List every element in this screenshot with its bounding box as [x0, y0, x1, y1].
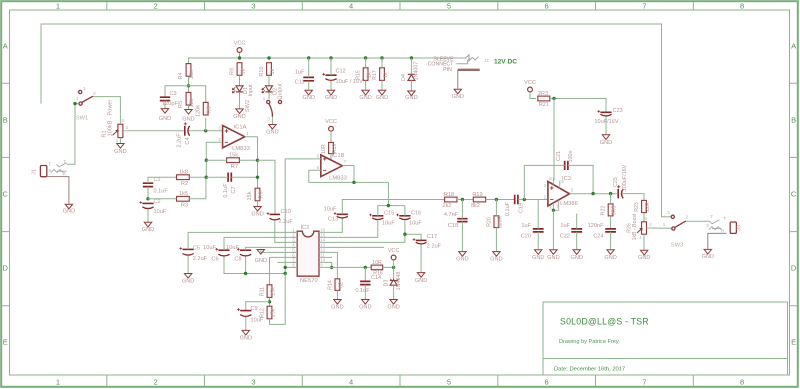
- wire C5 to pin1 rail: [188, 232, 297, 249]
- svg-text:1N4007: 1N4007: [414, 62, 420, 81]
- ground GND below C5: [184, 274, 191, 279]
- ground GND below R9: [254, 207, 261, 212]
- svg-text:Date: December 16th, 2017: Date: December 16th, 2017: [554, 367, 625, 373]
- svg-text:0.1uF: 0.1uF: [154, 189, 169, 195]
- svg-text:Drawing by Patrice Frey: Drawing by Patrice Frey: [559, 339, 619, 345]
- wire IC1B output: [342, 166, 354, 183]
- svg-text:SW2: SW2: [245, 100, 251, 112]
- wire SW1 lever to pot R1: [93, 97, 120, 124]
- svg-text:100n: 100n: [568, 151, 574, 163]
- svg-text:GND: GND: [547, 255, 559, 261]
- svg-text:GND: GND: [405, 95, 417, 101]
- capacitor C17 2.2uF: [416, 239, 427, 241]
- wire IC3 output: [570, 193, 618, 195]
- svg-text:GND: GND: [702, 254, 714, 260]
- frame row ticks left and right: [2, 83, 798, 306]
- svg-text:GND: GND: [325, 95, 337, 101]
- svg-text:T: T: [710, 215, 713, 220]
- wire C19 to IC3 input: [518, 199, 548, 201]
- svg-text:C6: C6: [211, 256, 218, 262]
- resistor R17 10k: [380, 68, 385, 81]
- junction VCC rail R17: [380, 56, 383, 59]
- svg-text:C20: C20: [521, 233, 531, 239]
- svg-text:2k2: 2k2: [442, 203, 451, 209]
- resistor R18 2k2: [445, 197, 457, 202]
- wire C21 feedback loop: [524, 165, 564, 199]
- wire pin6 to R11: [270, 256, 298, 258]
- svg-text:7: 7: [642, 2, 646, 11]
- IC2 NE570 compander: [297, 231, 319, 276]
- wire pin14 to C16: [324, 221, 405, 243]
- svg-text:1uF: 1uF: [295, 70, 305, 76]
- svg-text:D4: D4: [401, 74, 407, 81]
- svg-text:1uF: 1uF: [521, 223, 531, 229]
- svg-text:1k: 1k: [270, 68, 276, 74]
- svg-text:8: 8: [740, 2, 744, 11]
- wire R6 bottom to input node: [205, 118, 207, 131]
- wire J1 tip to bypass node: [67, 104, 75, 165]
- svg-text:6: 6: [545, 378, 549, 387]
- svg-text:R8: R8: [229, 68, 235, 75]
- wire pin7 stub: [278, 261, 298, 263]
- svg-text:15k: 15k: [229, 153, 238, 159]
- svg-text:1k5: 1k5: [179, 191, 188, 197]
- svg-text:E: E: [3, 338, 8, 347]
- wire C11 stems: [308, 58, 310, 77]
- resistor R6 120k: [203, 102, 208, 115]
- svg-text:R21: R21: [539, 102, 549, 108]
- svg-text:4: 4: [349, 2, 353, 11]
- wire R4 to bias node: [188, 76, 190, 92]
- IC2 pin 3 stub: [292, 241, 297, 243]
- capacitor C1 0.1uF: [143, 183, 153, 186]
- svg-text:A: A: [791, 42, 796, 51]
- svg-text:2.2uF: 2.2uF: [427, 244, 442, 250]
- wire pin8 to bias rail: [285, 266, 297, 268]
- svg-text:0.1uF: 0.1uF: [505, 201, 511, 216]
- IC2 pin 1 stub: [292, 231, 297, 233]
- ground GND below C20: [535, 250, 542, 255]
- capacitor C16 10uF: [399, 215, 410, 217]
- ground GND below C23: [602, 135, 609, 140]
- svg-text:10uF: 10uF: [251, 317, 264, 323]
- svg-text:VCC: VCC: [325, 119, 337, 125]
- svg-text:100uF/16V: 100uF/16V: [622, 164, 628, 191]
- resistor R9 15k: [255, 188, 260, 201]
- IC2 pin 4 stub: [292, 246, 297, 248]
- junction C21 left node: [523, 198, 526, 201]
- svg-text:1k: 1k: [240, 68, 246, 74]
- wire VCC stem to node: [393, 260, 395, 268]
- svg-text:GND: GND: [359, 95, 371, 101]
- junction inverting node C7 left: [205, 176, 208, 179]
- svg-text:4.7nF: 4.7nF: [444, 212, 459, 218]
- junction output R22 tap: [609, 192, 612, 195]
- svg-text:C10: C10: [281, 209, 291, 215]
- svg-text:3R3: 3R3: [612, 206, 618, 216]
- svg-text:C4: C4: [185, 137, 191, 144]
- wire VCC drop to IC3: [553, 99, 555, 181]
- title block box: [543, 302, 788, 375]
- svg-text:62: 62: [338, 282, 344, 288]
- junction bias node: [187, 84, 190, 87]
- svg-text:10R: 10R: [372, 260, 382, 266]
- frame column ticks top and bottom: [107, 2, 694, 387]
- wire C23 to ground: [605, 117, 607, 135]
- wire R19 to IC1B: [330, 154, 332, 161]
- IC2 pin 9 stub: [319, 266, 324, 268]
- resistor R11 15k: [267, 285, 272, 298]
- wire IC1B noninverting input riser: [285, 159, 321, 274]
- junction output to R7: [256, 159, 259, 162]
- svg-text:A: A: [3, 42, 8, 51]
- resistor R16 10R: [371, 265, 383, 270]
- wire bias node to R6: [189, 86, 206, 102]
- wire D3 to ground: [393, 285, 395, 299]
- wire J3 sleeve to ground: [708, 233, 727, 249]
- wire C17 to ground: [420, 245, 422, 273]
- IC2 pin 7 stub: [292, 261, 297, 263]
- svg-text:C22: C22: [560, 233, 570, 239]
- resistor R2 1k8: [177, 175, 190, 180]
- capacitor C14 0.1uF: [360, 281, 370, 284]
- junction IC1B output feedback: [352, 181, 355, 184]
- capacitor C9 10uF: [240, 310, 251, 312]
- svg-text:B: B: [3, 116, 8, 125]
- ground GND below R14: [334, 300, 341, 305]
- capacitor C12 10uF/16V: [325, 74, 336, 76]
- capacitor C18 4.7nF: [457, 219, 467, 222]
- wire IC1A output down: [245, 137, 258, 188]
- svg-text:J1: J1: [32, 169, 38, 175]
- svg-text:C9: C9: [251, 306, 258, 312]
- ground GND below C17: [417, 273, 424, 278]
- svg-text:0.1uF: 0.1uF: [355, 288, 370, 294]
- ground GND below R5: [185, 110, 192, 115]
- svg-text:R4: R4: [178, 72, 184, 79]
- op-amp IC3 LM386: [548, 182, 570, 207]
- capacitor C21 100nF feedback: [565, 161, 568, 170]
- wire SW3 to jack J3: [686, 220, 710, 222]
- wire C25 to R23: [623, 194, 644, 201]
- junction IC3 ground node: [552, 209, 555, 212]
- svg-text:R15: R15: [356, 70, 362, 80]
- supply VCC above IC1B: [329, 126, 334, 131]
- LED D2 Output: [266, 86, 273, 92]
- svg-text:SW1: SW1: [76, 116, 89, 122]
- wire C7 wires: [206, 176, 228, 178]
- svg-text:IC1A: IC1A: [234, 125, 247, 131]
- IC2 pin 15 stub: [319, 236, 324, 238]
- junction C14 node: [364, 266, 367, 269]
- svg-text:R6: R6: [207, 106, 213, 113]
- svg-text:NE570: NE570: [300, 278, 318, 284]
- svg-text:GND: GND: [182, 117, 194, 123]
- ground GND below R15: [362, 90, 369, 95]
- svg-text:C25: C25: [613, 177, 619, 187]
- svg-text:LM833: LM833: [232, 146, 250, 152]
- svg-text:C24: C24: [593, 233, 603, 239]
- svg-text:15k: 15k: [270, 308, 276, 317]
- resistor R10 1k: [267, 63, 272, 76]
- svg-text:VCC: VCC: [234, 41, 246, 47]
- svg-text:10uF: 10uF: [324, 206, 337, 212]
- svg-text:120k: 120k: [196, 105, 202, 117]
- svg-text:C18: C18: [448, 223, 458, 229]
- svg-text:J3: J3: [737, 225, 743, 231]
- svg-text:10uF: 10uF: [203, 245, 216, 251]
- wire R26 wiper to SW3: [651, 227, 672, 229]
- svg-text:C2: C2: [154, 199, 161, 205]
- wire C10 bottom to pin3 line: [275, 220, 298, 242]
- svg-text:R23: R23: [634, 202, 640, 212]
- svg-text:1: 1: [56, 2, 60, 11]
- wire pin5 to ground: [261, 251, 297, 253]
- svg-text:S: S: [706, 223, 709, 228]
- junction R11 R12 C9: [268, 300, 271, 303]
- supply VCC main: [237, 48, 242, 53]
- svg-text:C7: C7: [231, 186, 237, 193]
- wire IC1B output to C15/C16 node: [387, 182, 389, 205]
- wire J1 sleeve to ground: [47, 177, 69, 204]
- svg-text:1k8: 1k8: [179, 170, 188, 176]
- switch SW1 bypass: [79, 102, 82, 105]
- svg-text:R2: R2: [181, 181, 188, 187]
- svg-text:GND: GND: [490, 257, 502, 263]
- wire IC1A output to C10: [258, 160, 276, 214]
- ground GND below C24: [607, 250, 614, 255]
- IC2 pin 16 stub: [319, 231, 324, 233]
- svg-text:LM386: LM386: [560, 201, 578, 207]
- svg-text:R11: R11: [259, 287, 265, 296]
- svg-text:10uF: 10uF: [226, 245, 239, 251]
- wire C14 to ground: [364, 285, 366, 300]
- svg-text:2.2uF: 2.2uF: [176, 133, 182, 148]
- capacitor C7 0.1uF feedback: [228, 173, 231, 182]
- svg-text:R3: R3: [181, 202, 188, 208]
- resistor R8 1k: [237, 63, 242, 76]
- resistor R4 10k: [186, 64, 191, 77]
- svg-text:GND: GND: [63, 208, 75, 214]
- capacitor C11 1uF: [303, 77, 314, 80]
- wire C16 top to coupling node: [404, 206, 406, 216]
- wire C4 to IC1A noninverting input: [189, 130, 222, 132]
- svg-text:R19: R19: [472, 192, 482, 198]
- junction VCC rail C11: [307, 56, 310, 59]
- resistor R23 22R: [642, 200, 647, 212]
- IC2 pin 14 stub: [319, 241, 324, 243]
- svg-text:10k: 10k: [189, 70, 195, 79]
- svg-text:E: E: [791, 338, 796, 347]
- svg-text:GND: GND: [376, 95, 388, 101]
- wire IC1B feedback loop: [309, 170, 389, 182]
- wire R9 to ground: [257, 201, 259, 206]
- junction R20 node: [495, 198, 498, 201]
- junction node C1/C2/R3: [146, 197, 149, 200]
- wire C8 bottom to bias rail: [245, 256, 247, 273]
- capacitor C24 120nF: [605, 229, 616, 232]
- svg-text:VCC: VCC: [388, 248, 400, 254]
- svg-text:680R: 680R: [497, 216, 503, 229]
- svg-text:10k: 10k: [189, 98, 195, 107]
- capacitor C10 2.2uF: [270, 213, 280, 215]
- wire R17 stems: [381, 58, 383, 68]
- wire DC jack pin to ground: [457, 70, 459, 89]
- svg-text:GND: GND: [532, 255, 544, 261]
- wire pin11 stub: [324, 256, 332, 258]
- wire VCC rail: [189, 58, 436, 63]
- svg-text:5: 5: [447, 378, 451, 387]
- svg-text:1k: 1k: [383, 72, 389, 78]
- resistor R14 62k: [335, 279, 340, 291]
- svg-text:GND: GND: [142, 227, 154, 233]
- svg-text:100kB - Power: 100kB - Power: [108, 100, 114, 137]
- wire R2 to inverting node: [189, 176, 206, 178]
- wire C13 top to signal rail: [342, 200, 444, 215]
- svg-text:GND: GND: [638, 255, 650, 261]
- junction node C4/R6/IC1A+: [204, 129, 207, 132]
- junction pin10 rail: [330, 266, 333, 269]
- wire C1 top to R2: [148, 177, 176, 183]
- svg-text:D: D: [2, 264, 8, 273]
- wire C12 stems: [330, 58, 332, 75]
- capacitor C13 10uF: [337, 213, 348, 215]
- wire C3 to ground: [164, 101, 166, 109]
- ground GND below C12: [327, 90, 334, 95]
- junction C15 C16 IC1B output: [387, 204, 390, 207]
- svg-text:R18: R18: [444, 192, 454, 198]
- capacitor C6 10uF: [218, 249, 229, 251]
- wire pin9 to R16 rail: [324, 266, 372, 268]
- ground GND below J3: [704, 249, 711, 254]
- svg-text:3: 3: [251, 2, 255, 11]
- ground GND at NE570 pin5: [257, 250, 264, 255]
- wire C24 to ground: [610, 232, 612, 249]
- wire R11 to R12 junction: [269, 297, 271, 306]
- svg-text:R10: R10: [259, 66, 265, 76]
- svg-text:C12: C12: [336, 69, 346, 75]
- ground GND below DC jack: [454, 89, 461, 94]
- junction VCC rail R8: [238, 56, 241, 59]
- svg-text:T: T: [723, 216, 726, 221]
- wire C18 stems: [461, 200, 463, 219]
- svg-text:C11: C11: [295, 80, 305, 86]
- svg-text:IC2: IC2: [301, 225, 310, 231]
- svg-text:S: S: [48, 168, 51, 173]
- svg-text:R9: R9: [258, 191, 264, 198]
- junction VCC D3 node: [392, 266, 395, 269]
- svg-text:D3: D3: [383, 280, 389, 287]
- resistor R5 10k: [186, 92, 191, 105]
- svg-text:J2: J2: [484, 58, 489, 63]
- svg-text:GND: GND: [251, 212, 263, 218]
- diode D4 1N4007: [408, 75, 415, 81]
- wire C1 bottom to node: [147, 187, 149, 199]
- capacitor C3 120pF: [160, 97, 170, 100]
- svg-text:C19: C19: [519, 203, 525, 213]
- svg-text:3: 3: [251, 378, 255, 387]
- IC2 pin 11 stub: [319, 256, 324, 258]
- svg-text:10R: 10R: [321, 144, 327, 154]
- svg-text:5: 5: [447, 2, 451, 11]
- svg-text:GND: GND: [182, 279, 194, 285]
- svg-text:1N4348: 1N4348: [396, 272, 402, 291]
- svg-text:C1: C1: [154, 177, 161, 183]
- svg-text:1: 1: [56, 378, 60, 387]
- connector J3 output jack: [730, 222, 736, 233]
- svg-text:R20: R20: [486, 217, 492, 227]
- junction bias rail node: [284, 272, 287, 275]
- wire pin12 to R14: [324, 252, 338, 278]
- svg-text:C3: C3: [170, 91, 177, 97]
- wire R12 bottom loop to bias rail: [270, 274, 286, 325]
- svg-text:R7: R7: [231, 164, 238, 170]
- resistor R12 15k: [267, 306, 272, 319]
- svg-text:B: B: [791, 116, 796, 125]
- svg-text:GND: GND: [266, 130, 278, 136]
- svg-text:7: 7: [642, 378, 646, 387]
- ground GND below R26: [641, 250, 648, 255]
- wire R18 to junction: [457, 199, 473, 201]
- wire pin13 stub: [324, 246, 384, 248]
- svg-text:6: 6: [545, 2, 549, 11]
- svg-text:GND: GND: [233, 114, 245, 120]
- ground GND below D1: [236, 109, 243, 114]
- svg-text:0.1uF: 0.1uF: [223, 183, 229, 198]
- svg-text:8: 8: [740, 378, 744, 387]
- resistor R3 1k5: [177, 196, 190, 201]
- svg-text:S0L0D@LL@S - TSR: S0L0D@LL@S - TSR: [560, 317, 649, 327]
- wire SW2 to ground: [271, 117, 273, 124]
- junction output to C7: [256, 176, 259, 179]
- wire node to R3: [148, 198, 176, 200]
- junction VCC rail C12: [329, 56, 332, 59]
- svg-text:2R3: 2R3: [538, 91, 548, 97]
- svg-text:R12: R12: [259, 308, 265, 318]
- capacitor C15 10uF: [372, 215, 383, 217]
- svg-text:C5: C5: [193, 246, 200, 252]
- svg-text:R19: R19: [332, 144, 338, 154]
- svg-text:120pF: 120pF: [162, 101, 178, 107]
- junction bypass input node: [73, 102, 76, 105]
- ground GND below C3: [161, 109, 168, 114]
- svg-text:GND: GND: [114, 149, 126, 155]
- svg-text:D: D: [791, 264, 797, 273]
- wire pin16 to C13: [324, 218, 343, 232]
- svg-text:10uF: 10uF: [409, 221, 422, 227]
- svg-text:T: T: [63, 159, 66, 164]
- resistor R15 10k: [363, 68, 368, 81]
- capacitor C20 1uF: [533, 229, 544, 232]
- potentiometer R1 100kB Power: [118, 124, 123, 137]
- IC3 ground pin stubs: [552, 203, 554, 210]
- wire junction to C9: [246, 302, 270, 310]
- svg-text:GND: GND: [387, 305, 399, 311]
- wire input node to SW1: [75, 103, 79, 105]
- svg-text:C13: C13: [328, 217, 338, 223]
- wire C6 bottom to bias rail: [224, 256, 285, 273]
- potentiometer R26 1kB Boost: [642, 222, 647, 234]
- svg-text:R5: R5: [178, 101, 184, 108]
- svg-text:GND: GND: [415, 278, 427, 284]
- wire bias node to C3: [165, 86, 189, 97]
- connector J1 input jack: [40, 166, 46, 177]
- wire IC1A inverting input: [206, 142, 222, 177]
- switch SW2 LED select: [267, 100, 270, 103]
- junction feedback R7 left: [205, 159, 208, 162]
- wire R15 stems: [365, 58, 367, 68]
- svg-text:C21: C21: [556, 151, 562, 161]
